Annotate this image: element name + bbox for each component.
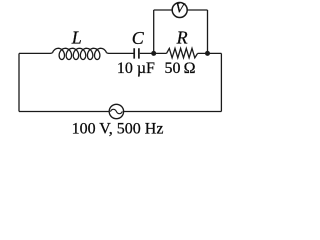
wire: top-left segment from corner to inductor — [19, 52, 53, 55]
node: junction dot left (capacitor/voltmeter tap) — [151, 51, 156, 56]
wire: right vertical of main loop — [220, 53, 222, 111]
wire: resistor to top-right corner — [198, 52, 222, 54]
wire: left vertical of main loop — [18, 53, 20, 111]
AC source V1 circle — [109, 104, 123, 118]
wire: voltmeter branch top-right segment — [187, 9, 207, 11]
wire: voltmeter branch top-left segment — [154, 9, 173, 11]
svg-text:50 Ω: 50 Ω — [164, 60, 195, 77]
svg-text:R: R — [176, 27, 188, 47]
inductor L — [53, 48, 107, 59]
wire: capacitor to resistor — [140, 52, 167, 54]
wire: bottom left segment to AC source — [19, 111, 109, 113]
svg-text:V: V — [175, 2, 185, 17]
wire: bottom right segment from AC source — [124, 111, 222, 113]
svg-text:C: C — [132, 28, 145, 48]
node: junction dot right (resistor/voltmeter tap) — [205, 51, 210, 56]
resistor R zigzag — [167, 48, 198, 57]
wire: voltmeter branch right vertical — [207, 10, 209, 53]
svg-text:10 µF: 10 µF — [117, 60, 155, 77]
capacitor C plates — [134, 48, 139, 58]
wire: voltmeter branch left vertical — [153, 10, 155, 53]
svg-text:L: L — [71, 28, 82, 48]
voltmeter U1 circle — [172, 3, 187, 18]
AC source sine wave — [110, 109, 122, 113]
svg-text:100 V, 500 Hz: 100 V, 500 Hz — [72, 120, 164, 137]
wire: inductor to capacitor — [107, 52, 135, 55]
